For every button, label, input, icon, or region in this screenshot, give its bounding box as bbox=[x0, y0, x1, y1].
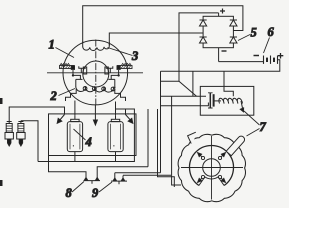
wire switch9 right to flywheel bbox=[123, 174, 171, 176]
regulator contact to coil link bbox=[215, 100, 222, 102]
label 2 leader bbox=[59, 89, 76, 96]
brush pad left bbox=[83, 67, 86, 74]
regulator contact plate 2 bbox=[213, 94, 215, 106]
label 8 leader bbox=[72, 182, 84, 193]
wire left plug to coil arrow node bbox=[9, 107, 64, 122]
label 7 leader from regulator bbox=[244, 111, 260, 125]
flywheel cam lever bbox=[226, 136, 244, 156]
label 7 leader from magneto bbox=[247, 129, 260, 137]
brush left lead bbox=[72, 70, 81, 79]
field coil top (3) winding bbox=[83, 42, 110, 51]
brush right lead bbox=[111, 70, 120, 79]
svg-text:2: 2 bbox=[50, 89, 57, 103]
battery minus sign bbox=[254, 55, 260, 57]
svg-text:1: 1 bbox=[49, 38, 55, 52]
plus terminal tick bbox=[218, 13, 220, 16]
diode bottom-left bbox=[200, 37, 207, 43]
switch 9 bbox=[111, 175, 127, 184]
HV center arrow bbox=[94, 105, 96, 120]
diode top-left bbox=[200, 20, 207, 26]
regulator input upper bbox=[161, 95, 207, 97]
wire bottom bus to coils tick bbox=[38, 109, 134, 162]
minus sign bbox=[222, 50, 227, 52]
regulator arrow bbox=[241, 101, 243, 110]
main vertical bus wire bbox=[160, 71, 162, 173]
plus sign bbox=[220, 9, 225, 14]
HV right arrow bbox=[126, 109, 132, 121]
regulator contact plate 1 bbox=[208, 93, 213, 108]
label 1 leader bbox=[56, 48, 75, 58]
spark plug left bbox=[5, 122, 13, 147]
svg-text:3: 3 bbox=[131, 49, 138, 63]
label 6 leader bbox=[264, 38, 270, 54]
flywheel NW screw and arrow bbox=[201, 156, 204, 159]
flywheel stator C plate outer arc bbox=[190, 145, 234, 185]
wire switch9 left to main bus bbox=[115, 173, 161, 175]
armature left step bracket bbox=[66, 89, 77, 101]
label 3 leader bbox=[108, 48, 133, 56]
brush pad right bbox=[105, 67, 108, 74]
wire generator to left coil bbox=[74, 101, 76, 116]
wire generator to right coil bbox=[115, 102, 117, 116]
ignition coil left (4) bbox=[67, 116, 82, 162]
wire right plug bottom run bbox=[21, 121, 38, 162]
regulator top feed into coil bbox=[224, 86, 233, 96]
generator rotor inner circle bbox=[83, 61, 109, 87]
riser x148 bbox=[147, 109, 149, 167]
svg-text:5: 5 bbox=[251, 26, 257, 40]
riser x157.5 to flywheel lower wire bbox=[158, 109, 175, 187]
svg-text:6: 6 bbox=[268, 25, 275, 39]
svg-text:7: 7 bbox=[260, 120, 267, 134]
svg-text:9: 9 bbox=[92, 186, 99, 200]
label 5 leader bbox=[238, 35, 250, 41]
diode top-right bbox=[230, 20, 237, 26]
regulator (7) box bbox=[200, 86, 254, 115]
rectifier bridge (5) body bbox=[203, 16, 233, 47]
HV arrow to left coil bbox=[59, 115, 65, 122]
wire plus output to regulator bbox=[179, 13, 219, 96]
flywheel rim notch bbox=[185, 131, 197, 144]
flywheel vertical centerline bbox=[211, 136, 213, 200]
brush right bracket to rotor bbox=[106, 66, 113, 73]
wire battery line drop to regulator contact frame bbox=[192, 71, 194, 96]
regulator coil winding bbox=[219, 98, 243, 103]
regulator input lower L bbox=[161, 103, 209, 106]
switch 8 bbox=[84, 175, 101, 184]
flywheel NE screw and arrow bbox=[218, 156, 221, 159]
brush left bracket to rotor bbox=[79, 66, 86, 73]
armature coil (2) right post bbox=[108, 79, 115, 87]
wire plus stub to bus bbox=[161, 80, 180, 82]
wire battery line drop to regulator coil bbox=[223, 71, 225, 86]
flywheel horizontal centerline bbox=[181, 167, 243, 169]
wire B generator terminal to rectifier left AC node bbox=[109, 33, 203, 46]
generator vertical centerline bbox=[95, 40, 97, 105]
minus terminal tick bbox=[218, 48, 220, 62]
ignition coil right (4) bbox=[108, 116, 123, 162]
scan edge mark left lower bbox=[0, 180, 3, 186]
brush holder left bar with spring bbox=[60, 63, 75, 69]
flywheel SW screw and arrow bbox=[201, 175, 204, 178]
generator G stator outer circle bbox=[63, 40, 128, 105]
flywheel SE screw and arrow bbox=[218, 175, 221, 178]
wire switch8 right to riser bbox=[97, 167, 148, 175]
brush holder right bar with spring bbox=[117, 63, 132, 69]
spark plug right bbox=[17, 122, 25, 147]
armature right step bracket bbox=[115, 89, 126, 101]
battery (6) plates bbox=[264, 56, 278, 64]
scan edge mark left upper bbox=[0, 98, 3, 104]
flywheel hub circle bbox=[203, 159, 221, 177]
label 9 leader bbox=[99, 182, 112, 192]
wire minus output to battery bbox=[219, 61, 263, 63]
armature coil (2) loops bbox=[76, 86, 116, 92]
armature coil (2) left post bbox=[76, 79, 83, 86]
wire A generator top terminal to rectifier right AC node bbox=[83, 6, 243, 43]
generator horizontal centerline bbox=[47, 72, 143, 74]
label 4 leader bbox=[74, 129, 86, 140]
C plate end edges and inner arc bbox=[199, 177, 224, 186]
ignition coils box bbox=[49, 114, 137, 156]
flywheel magneto outer lobed rim bbox=[178, 134, 245, 201]
diode bottom-right bbox=[230, 37, 237, 43]
battery plus sign bbox=[278, 53, 284, 59]
svg-text:4: 4 bbox=[85, 135, 92, 149]
wire battery positive return bbox=[161, 60, 280, 72]
svg-text:8: 8 bbox=[66, 186, 73, 200]
wire coils box to switch 8 (ground frame) bbox=[49, 156, 87, 178]
regulator ground drop under flywheel bbox=[172, 96, 181, 185]
